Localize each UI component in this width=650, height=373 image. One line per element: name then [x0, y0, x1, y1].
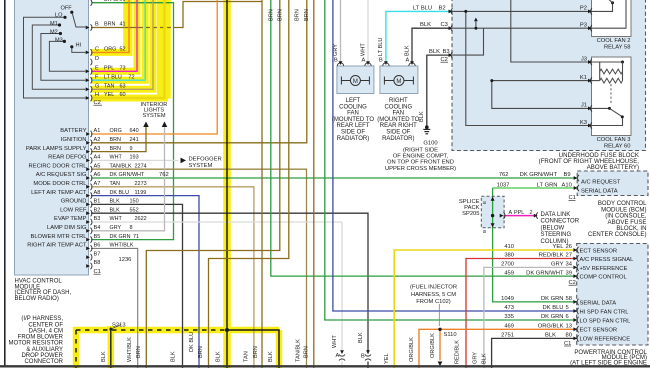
svg-text:P2: P2 — [580, 6, 587, 12]
svg-text:ORG: ORG — [104, 47, 116, 53]
svg-text:E: E — [482, 201, 487, 204]
svg-text:TAN: TAN — [110, 181, 120, 187]
svg-text:RELAY 60: RELAY 60 — [604, 144, 631, 150]
svg-text:BRN: BRN — [277, 9, 283, 21]
svg-text:B: B — [361, 354, 365, 360]
svg-text:WHT: WHT — [332, 335, 338, 348]
svg-text:COOLING: COOLING — [384, 104, 412, 110]
svg-text:D: D — [95, 56, 99, 62]
svg-text:BLOWER MTR CTRL: BLOWER MTR CTRL — [30, 234, 87, 240]
svg-text:RIGHT AIR TEMP ACT: RIGHT AIR TEMP ACT — [27, 243, 87, 249]
svg-text:2: 2 — [530, 210, 533, 216]
svg-text:GRY: GRY — [551, 262, 564, 268]
svg-text:BATTERY: BATTERY — [60, 128, 86, 134]
svg-text:BLK: BLK — [545, 333, 556, 339]
svg-text:BRN: BRN — [136, 346, 142, 358]
svg-text:TAN: TAN — [104, 84, 114, 90]
svg-text:BLK: BLK — [481, 353, 487, 364]
svg-text:762: 762 — [499, 172, 509, 178]
svg-text:TAN: TAN — [244, 351, 250, 362]
svg-text:YEL: YEL — [553, 244, 565, 250]
svg-text:YEL: YEL — [104, 92, 114, 98]
svg-text:DK GRN: DK GRN — [541, 314, 564, 320]
svg-text:A3: A3 — [94, 146, 101, 152]
svg-text:HARNESS, 5 CM: HARNESS, 5 CM — [411, 292, 456, 298]
svg-text:DK BLU: DK BLU — [110, 190, 130, 196]
svg-text:MODE DOOR CTRL: MODE DOOR CTRL — [33, 181, 87, 187]
svg-text:B4: B4 — [94, 225, 101, 231]
svg-text:BRN: BRN — [304, 9, 310, 21]
svg-text:80: 80 — [566, 333, 572, 339]
svg-text:BLK: BLK — [101, 351, 107, 362]
svg-text:WHT/BLK: WHT/BLK — [127, 337, 133, 362]
svg-text:(MOUNTED TO: (MOUNTED TO — [377, 117, 419, 123]
svg-text:RED/BLK: RED/BLK — [455, 340, 461, 364]
svg-text:9: 9 — [130, 146, 133, 152]
svg-text:DK BLU: DK BLU — [189, 332, 195, 352]
svg-text:34: 34 — [566, 262, 573, 268]
svg-text:LEFT AIR TEMP ACT: LEFT AIR TEMP ACT — [31, 190, 87, 196]
svg-text:B8: B8 — [94, 260, 101, 266]
svg-text:A/C REQUEST SIG: A/C REQUEST SIG — [36, 172, 87, 178]
svg-text:(FUEL INJECTOR: (FUEL INJECTOR — [410, 285, 457, 291]
svg-text:FAN: FAN — [392, 111, 404, 117]
svg-text:B5: B5 — [94, 234, 101, 240]
svg-text:M1: M1 — [50, 21, 58, 27]
svg-text:71: 71 — [133, 234, 139, 240]
svg-text:2751: 2751 — [501, 333, 514, 339]
svg-text:ORG/BLK: ORG/BLK — [538, 324, 564, 330]
svg-text:ORG: ORG — [110, 128, 122, 134]
svg-text:LT BLU: LT BLU — [104, 74, 122, 80]
svg-text:SIDE OF: SIDE OF — [386, 130, 410, 136]
svg-text:380: 380 — [504, 253, 514, 259]
svg-text:1199: 1199 — [135, 190, 147, 196]
svg-text:BLK: BLK — [429, 49, 440, 55]
svg-text:A6: A6 — [94, 172, 101, 178]
svg-text:LAMP DIM SIG: LAMP DIM SIG — [47, 225, 87, 231]
svg-text:SERIAL DATA: SERIAL DATA — [580, 300, 617, 306]
svg-text:COOLING: COOLING — [339, 104, 367, 110]
svg-text:(AT LEFT SIDE OF ENGINE: (AT LEFT SIDE OF ENGINE — [570, 359, 647, 366]
svg-text:459: 459 — [504, 270, 514, 276]
svg-text:(RIGHT SIDE: (RIGHT SIDE — [403, 147, 438, 153]
svg-text:2700: 2700 — [501, 262, 514, 268]
svg-text:+5V REFERENCE: +5V REFERENCE — [580, 266, 628, 272]
svg-text:BRN: BRN — [304, 346, 310, 358]
svg-text:B: B — [95, 22, 99, 28]
svg-text:410: 410 — [504, 244, 514, 250]
svg-text:F: F — [95, 74, 99, 80]
svg-text:S110: S110 — [444, 332, 457, 338]
svg-text:640: 640 — [130, 128, 139, 134]
svg-text:WHT: WHT — [110, 216, 123, 222]
svg-text:B: B — [334, 58, 338, 64]
svg-text:2273: 2273 — [135, 181, 147, 187]
svg-text:72: 72 — [128, 74, 134, 80]
svg-text:B7: B7 — [94, 251, 101, 257]
svg-text:PPL: PPL — [514, 210, 524, 216]
svg-text:41: 41 — [120, 22, 126, 28]
svg-text:K3: K3 — [580, 120, 587, 126]
svg-text:58: 58 — [566, 296, 572, 302]
svg-text:LT BLU: LT BLU — [413, 5, 432, 11]
svg-text:BLK: BLK — [110, 207, 121, 213]
svg-text:A: A — [336, 353, 340, 359]
svg-text:DK GRN: DK GRN — [110, 234, 131, 240]
svg-text:LT GRN: LT GRN — [537, 182, 558, 188]
svg-text:ECT SENSOR: ECT SENSOR — [580, 328, 618, 334]
svg-text:J1: J1 — [581, 103, 587, 109]
svg-text:FAN: FAN — [347, 111, 359, 117]
svg-text:GRY: GRY — [473, 352, 479, 364]
svg-text:RECIRC DOOR CTRL: RECIRC DOOR CTRL — [29, 163, 88, 169]
svg-text:REAR DEFOG: REAR DEFOG — [48, 155, 87, 161]
svg-text:DATA LINK: DATA LINK — [541, 212, 571, 218]
svg-text:DK GRN: DK GRN — [104, 0, 125, 3]
svg-text:M3: M3 — [55, 38, 63, 44]
svg-text:REAR RIGHT: REAR RIGHT — [380, 123, 417, 129]
svg-text:DEFOGGER: DEFOGGER — [189, 157, 222, 163]
svg-text:WHT: WHT — [110, 155, 123, 161]
svg-text:A2: A2 — [94, 137, 101, 143]
svg-text:C3: C3 — [441, 22, 448, 28]
svg-text:A1: A1 — [94, 128, 101, 134]
svg-text:26: 26 — [566, 244, 572, 250]
svg-text:B2: B2 — [439, 5, 446, 11]
svg-text:DK GRN: DK GRN — [541, 296, 564, 302]
svg-text:S213: S213 — [112, 323, 126, 329]
svg-text:(MOUNTED TO: (MOUNTED TO — [332, 117, 374, 123]
svg-text:1049: 1049 — [501, 296, 514, 302]
svg-text:COMP CONTROL: COMP CONTROL — [580, 275, 628, 281]
svg-text:STEERING: STEERING — [541, 232, 572, 238]
svg-text:FROM BLOWER: FROM BLOWER — [18, 335, 64, 341]
svg-text:WHT: WHT — [360, 43, 366, 56]
svg-text:B3: B3 — [443, 49, 450, 55]
svg-text:DK GRN/WHT: DK GRN/WHT — [520, 172, 558, 178]
svg-text:BRN: BRN — [104, 22, 115, 28]
svg-text:1236: 1236 — [119, 257, 132, 263]
svg-text:A10: A10 — [562, 182, 572, 188]
svg-text:PARK LAMPS SUPPLY: PARK LAMPS SUPPLY — [26, 146, 87, 152]
svg-text:CONNECTOR: CONNECTOR — [24, 359, 63, 365]
svg-text:B9: B9 — [564, 172, 571, 178]
svg-text:A4: A4 — [94, 155, 101, 161]
svg-text:PPL: PPL — [104, 66, 114, 72]
svg-text:BLK: BLK — [110, 199, 121, 205]
svg-text:UPPER CROSS MEMBER): UPPER CROSS MEMBER) — [385, 166, 456, 172]
svg-text:RED/BLK: RED/BLK — [539, 253, 564, 259]
svg-text:H: H — [95, 92, 99, 98]
svg-text:COOL FAN 3: COOL FAN 3 — [597, 137, 631, 143]
svg-text:M2: M2 — [50, 30, 58, 36]
svg-text:DK GRN/WHT: DK GRN/WHT — [110, 172, 145, 178]
svg-text:WHT/BLK: WHT/BLK — [110, 243, 134, 249]
svg-text:& AUXILIARY: & AUXILIARY — [26, 347, 63, 353]
svg-text:SYSTEM: SYSTEM — [189, 163, 213, 169]
svg-text:193: 193 — [130, 155, 139, 161]
svg-text:BRN: BRN — [253, 346, 259, 358]
svg-text:A7: A7 — [94, 181, 101, 187]
svg-text:RIGHT: RIGHT — [389, 98, 408, 104]
svg-text:MOTOR RESISTOR: MOTOR RESISTOR — [9, 341, 64, 347]
svg-text:HI SPD FAN CTRL: HI SPD FAN CTRL — [580, 309, 630, 315]
svg-text:CENTER OF: CENTER OF — [28, 322, 63, 328]
svg-text:COOL FAN 2: COOL FAN 2 — [597, 38, 631, 44]
svg-text:241: 241 — [130, 137, 139, 143]
svg-text:LO SPD FAN CTRL: LO SPD FAN CTRL — [580, 318, 632, 324]
svg-text:A: A — [406, 58, 410, 64]
svg-text:GROUND: GROUND — [61, 199, 87, 205]
svg-text:A/C PRESS SIGNAL: A/C PRESS SIGNAL — [580, 257, 635, 263]
svg-text:LEFT: LEFT — [346, 98, 361, 104]
svg-text:TAN/BLK: TAN/BLK — [296, 339, 302, 362]
svg-text:6: 6 — [566, 314, 569, 320]
svg-text:(I/P HARNESS,: (I/P HARNESS, — [21, 316, 63, 322]
svg-text:469: 469 — [504, 324, 514, 330]
svg-text:A8: A8 — [94, 190, 101, 196]
svg-text:13: 13 — [566, 324, 572, 330]
svg-text:A/C REQUEST: A/C REQUEST — [581, 180, 621, 186]
svg-text:RADIATOR): RADIATOR) — [337, 136, 369, 142]
svg-text:39: 39 — [566, 270, 572, 276]
svg-text:BLK: BLK — [171, 351, 177, 362]
svg-text:73: 73 — [120, 66, 126, 72]
svg-text:DK GRN/WHT: DK GRN/WHT — [526, 270, 564, 276]
svg-text:SP205: SP205 — [462, 211, 479, 217]
svg-text:M: M — [396, 79, 401, 85]
svg-text:K1: K1 — [580, 75, 587, 81]
svg-text:5: 5 — [566, 305, 569, 311]
svg-text:60: 60 — [120, 92, 126, 98]
svg-text:G: G — [95, 84, 99, 90]
svg-text:150: 150 — [130, 199, 139, 205]
svg-text:B3: B3 — [94, 216, 101, 222]
svg-text:BLK: BLK — [404, 45, 410, 56]
svg-text:BLK: BLK — [268, 351, 274, 362]
svg-text:GRY: GRY — [333, 44, 339, 56]
svg-text:B: B — [379, 58, 383, 64]
svg-text:473: 473 — [504, 305, 514, 311]
svg-text:ORG/BLK: ORG/BLK — [430, 333, 436, 358]
svg-text:B: B — [482, 230, 487, 233]
svg-text:C: C — [95, 47, 99, 53]
svg-text:63: 63 — [120, 84, 126, 90]
svg-text:TAN/BLK: TAN/BLK — [110, 163, 132, 169]
svg-text:RELAY 58: RELAY 58 — [604, 44, 631, 50]
svg-text:ON TOP OF FRONT END: ON TOP OF FRONT END — [387, 160, 454, 166]
svg-text:E: E — [95, 66, 99, 72]
svg-text:CONNECTOR: CONNECTOR — [541, 219, 580, 225]
svg-text:BRN: BRN — [198, 346, 204, 358]
svg-text:ABOVE BATTERY): ABOVE BATTERY) — [587, 164, 639, 171]
svg-text:A5: A5 — [94, 163, 101, 169]
svg-text:HI: HI — [76, 43, 82, 49]
svg-text:GRY: GRY — [110, 225, 122, 231]
svg-text:IGNITION: IGNITION — [61, 137, 87, 143]
svg-text:52: 52 — [120, 47, 126, 53]
svg-text:A: A — [362, 58, 366, 64]
svg-text:LO: LO — [55, 13, 63, 19]
svg-text:552: 552 — [130, 207, 139, 213]
svg-text:335: 335 — [504, 314, 514, 320]
svg-text:OF ENGINE COMPT,: OF ENGINE COMPT, — [393, 154, 449, 160]
svg-text:SERIAL DATA: SERIAL DATA — [581, 188, 618, 194]
svg-text:B6: B6 — [94, 243, 101, 249]
svg-text:LOW REFERENCE: LOW REFERENCE — [580, 337, 631, 343]
svg-text:1037: 1037 — [497, 182, 510, 188]
svg-text:LOW REF: LOW REF — [60, 207, 87, 213]
svg-text:762: 762 — [159, 172, 169, 178]
svg-text:M: M — [353, 79, 358, 85]
svg-text:P3: P3 — [580, 22, 587, 28]
svg-text:B2: B2 — [94, 207, 101, 213]
svg-text:BLK: BLK — [358, 332, 364, 343]
svg-text:BRN: BRN — [295, 9, 301, 21]
svg-text:A: A — [509, 210, 513, 216]
svg-text:YEL: YEL — [384, 353, 390, 364]
svg-text:J3: J3 — [581, 56, 587, 62]
svg-text:BLK: BLK — [216, 351, 222, 362]
svg-text:G100: G100 — [423, 141, 437, 147]
svg-text:B1: B1 — [94, 199, 101, 205]
svg-text:(BELOW: (BELOW — [541, 225, 565, 231]
svg-text:EVAP TEMP: EVAP TEMP — [54, 216, 87, 222]
svg-text:OFF: OFF — [61, 6, 73, 12]
svg-text:BRN: BRN — [110, 137, 121, 143]
svg-text:ORG/BLK: ORG/BLK — [409, 337, 415, 362]
svg-text:CENTER CONSOLE): CENTER CONSOLE) — [588, 231, 647, 238]
svg-text:2274: 2274 — [135, 163, 147, 169]
svg-text:BLK: BLK — [419, 111, 425, 122]
svg-text:DASH, 4 CM: DASH, 4 CM — [29, 328, 63, 334]
svg-text:BRN: BRN — [110, 146, 121, 152]
svg-text:ECT SENSOR: ECT SENSOR — [580, 248, 618, 254]
svg-text:LT BLU: LT BLU — [378, 38, 384, 56]
svg-text:BLK: BLK — [420, 22, 431, 28]
svg-text:27: 27 — [566, 253, 572, 259]
svg-text:BELOW RADIO): BELOW RADIO) — [15, 296, 59, 302]
svg-text:SIDE OF: SIDE OF — [341, 130, 365, 136]
svg-text:DK BLU: DK BLU — [543, 305, 564, 311]
svg-text:2622: 2622 — [135, 216, 147, 222]
svg-text:BRN: BRN — [268, 9, 274, 21]
svg-text:RADIATOR): RADIATOR) — [382, 136, 414, 142]
svg-text:DROP POWER: DROP POWER — [21, 353, 63, 359]
svg-text:FROM C102): FROM C102) — [416, 299, 451, 305]
svg-text:SYSTEM: SYSTEM — [142, 113, 165, 119]
svg-text:8: 8 — [130, 225, 133, 231]
svg-text:REAR LEFT: REAR LEFT — [336, 123, 369, 129]
